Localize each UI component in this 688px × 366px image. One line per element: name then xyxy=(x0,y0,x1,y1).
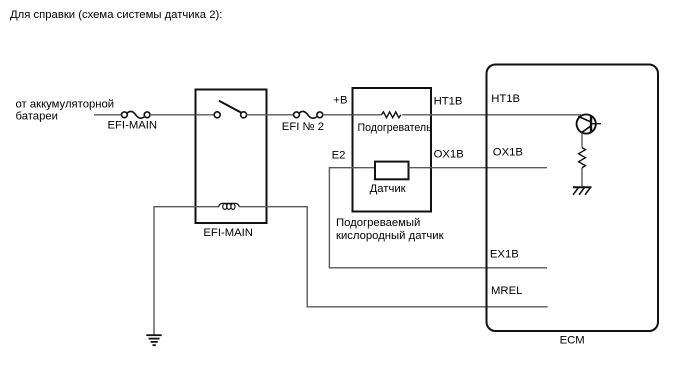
svg-text:HT1B: HT1B xyxy=(434,95,463,107)
wire E2 from sensor box left xyxy=(329,168,486,268)
svg-text:EFI № 2: EFI № 2 xyxy=(282,121,324,133)
resistor R (ECM pull-down) xyxy=(579,148,586,168)
svg-text:MREL: MREL xyxy=(491,285,522,297)
svg-text:EFI-MAIN: EFI-MAIN xyxy=(203,227,253,239)
svg-text:батареи: батареи xyxy=(16,111,58,123)
wire into relay switch xyxy=(196,114,215,116)
svg-text:Подогреваемый: Подогреваемый xyxy=(336,217,420,229)
sensor element box (Datchik) xyxy=(375,162,409,180)
svg-text:Для справки (схема системы дат: Для справки (схема системы датчика 2): xyxy=(10,9,222,21)
fuse EFI No 2 xyxy=(294,111,323,118)
wire to heater resistor xyxy=(353,114,382,116)
wire sensor box left to Datchik xyxy=(353,167,376,169)
relay coil L1 xyxy=(219,203,240,209)
relay switch contacts xyxy=(214,112,246,118)
ground (earth) symbol left xyxy=(146,335,161,345)
svg-text:E2: E2 xyxy=(332,150,346,162)
ECM box xyxy=(487,65,659,332)
wire relay switch to fuse EFI No2 xyxy=(247,114,294,116)
svg-text:OX1B: OX1B xyxy=(434,149,464,161)
svg-text:HT1B: HT1B xyxy=(491,93,520,105)
resistor heater (Podogrevatel) xyxy=(382,112,401,118)
wire battery to fuse EFI-MAIN xyxy=(94,114,122,116)
wire Datchik to OX1B xyxy=(409,167,548,169)
relay switch blade xyxy=(219,101,241,113)
svg-text:+B: +B xyxy=(333,95,347,107)
wire EX1B stub inside ECM xyxy=(487,267,548,269)
wire fuse EFI-MAIN to relay xyxy=(150,114,195,116)
svg-text:EFI-MAIN: EFI-MAIN xyxy=(108,120,158,132)
svg-text:EX1B: EX1B xyxy=(490,249,519,261)
svg-text:ECM: ECM xyxy=(560,334,585,346)
fuse EFI-MAIN xyxy=(122,111,151,118)
relay EFI-MAIN box xyxy=(196,90,267,224)
wire HT1B sensor to ECM transistor xyxy=(431,114,581,116)
wire MREL stub inside ECM xyxy=(487,306,548,308)
wire transistor emitter to resistor xyxy=(581,133,583,148)
wire fuse EFI No2 to sensor box, node +B xyxy=(323,114,353,116)
transistor Q (power transistor in ECM) xyxy=(577,114,601,133)
chassis ground in ECM xyxy=(573,187,592,195)
wire relay coil left to ground xyxy=(154,207,219,335)
wire relay coil right to MREL xyxy=(239,207,486,307)
svg-text:кислородный датчик: кислородный датчик xyxy=(336,230,444,242)
svg-text:от аккумуляторной: от аккумуляторной xyxy=(16,99,115,111)
svg-text:Датчик: Датчик xyxy=(370,183,406,195)
wire heater to box edge, node HT1B (sensor) xyxy=(402,114,431,116)
svg-text:Подогреватель: Подогреватель xyxy=(358,122,433,134)
heated oxygen sensor box xyxy=(353,88,432,212)
wire resistor to chassis ground xyxy=(581,168,583,187)
svg-text:OX1B: OX1B xyxy=(493,147,523,159)
